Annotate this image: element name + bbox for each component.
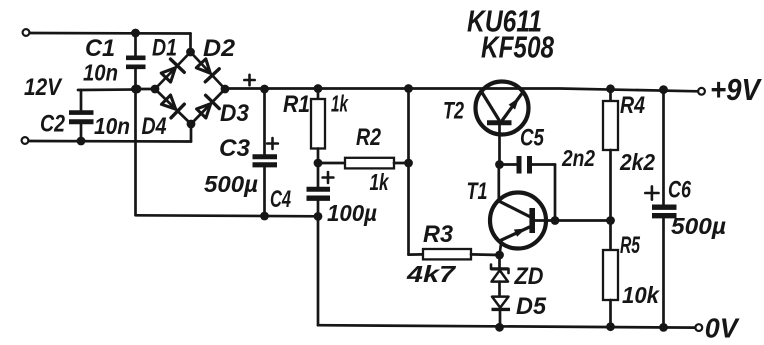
svg-text:10n: 10n bbox=[83, 60, 118, 86]
svg-text:D3: D3 bbox=[220, 100, 250, 127]
svg-text:2n2: 2n2 bbox=[561, 145, 595, 171]
svg-text:ZD: ZD bbox=[514, 263, 544, 290]
svg-text:100µ: 100µ bbox=[327, 200, 377, 226]
svg-text:10k: 10k bbox=[622, 282, 660, 308]
svg-text:+9V: +9V bbox=[710, 72, 762, 107]
svg-text:D4: D4 bbox=[142, 113, 167, 140]
svg-text:500µ: 500µ bbox=[204, 171, 258, 197]
svg-text:C5: C5 bbox=[520, 125, 545, 152]
svg-text:R1: R1 bbox=[283, 91, 310, 118]
svg-text:R5: R5 bbox=[620, 232, 640, 259]
svg-text:1k: 1k bbox=[331, 91, 349, 117]
svg-text:T2: T2 bbox=[443, 98, 464, 125]
svg-text:12V: 12V bbox=[24, 74, 63, 101]
svg-text:C3: C3 bbox=[219, 135, 251, 162]
svg-text:2k2: 2k2 bbox=[619, 149, 655, 175]
svg-text:T1: T1 bbox=[467, 178, 488, 205]
svg-text:D5: D5 bbox=[516, 293, 547, 320]
svg-text:R4: R4 bbox=[620, 92, 645, 119]
svg-text:500µ: 500µ bbox=[671, 213, 726, 239]
svg-text:10n: 10n bbox=[94, 113, 130, 139]
svg-text:C4: C4 bbox=[270, 186, 291, 213]
svg-text:4k7: 4k7 bbox=[406, 261, 457, 287]
svg-text:C6: C6 bbox=[668, 177, 691, 204]
svg-text:C1: C1 bbox=[85, 35, 115, 62]
svg-text:C2: C2 bbox=[40, 111, 66, 138]
svg-text:D2: D2 bbox=[203, 35, 236, 62]
svg-text:KF508: KF508 bbox=[481, 30, 555, 65]
svg-text:R3: R3 bbox=[423, 221, 454, 248]
svg-text:R2: R2 bbox=[356, 124, 382, 151]
svg-text:D1: D1 bbox=[152, 35, 177, 62]
svg-text:0V: 0V bbox=[705, 313, 740, 344]
svg-text:1k: 1k bbox=[370, 169, 390, 195]
